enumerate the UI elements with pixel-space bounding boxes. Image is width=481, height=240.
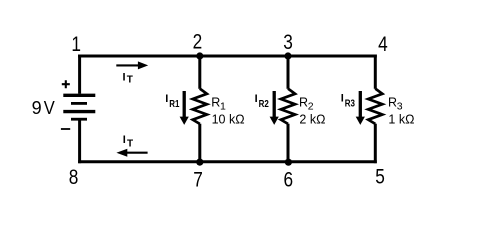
svg-text:8: 8 bbox=[69, 165, 79, 189]
svg-text:V: V bbox=[44, 98, 55, 118]
label R1 bbox=[211, 96, 226, 113]
svg-text:R: R bbox=[211, 96, 220, 110]
svg-text:T: T bbox=[127, 138, 133, 149]
svg-text:9: 9 bbox=[32, 98, 42, 118]
svg-text:6: 6 bbox=[284, 168, 294, 192]
battery plate long bbox=[63, 110, 95, 113]
svg-text:1: 1 bbox=[71, 32, 81, 56]
junction dot node 2 bbox=[196, 52, 203, 59]
svg-text:R2: R2 bbox=[259, 99, 270, 110]
svg-text:3: 3 bbox=[283, 30, 293, 54]
svg-text:3: 3 bbox=[397, 100, 403, 112]
svg-text:I: I bbox=[123, 134, 126, 146]
wire branch R1 lower (R1 down to node 7) bbox=[198, 124, 201, 162]
battery plate long (top, +) bbox=[63, 94, 95, 97]
svg-text:2: 2 bbox=[193, 30, 203, 54]
svg-text:R: R bbox=[388, 96, 397, 110]
svg-text:T: T bbox=[127, 75, 133, 86]
wire branch R2 lower (R2 down to node 6) bbox=[287, 124, 290, 162]
battery plate short bbox=[71, 102, 87, 105]
resistor R3 zigzag bbox=[368, 89, 382, 124]
wire bottom (node 8 to node 5) bbox=[78, 160, 377, 163]
wire left upper (node 1 down to battery + plate) bbox=[78, 55, 81, 94]
label R2 bbox=[299, 96, 314, 113]
wire right lower (R3 down to node 5) bbox=[374, 124, 377, 164]
wire right upper (node 4 down to R3) bbox=[374, 55, 377, 89]
battery negative sign - bbox=[61, 128, 70, 130]
svg-text:I: I bbox=[123, 71, 126, 83]
label I_R2 bbox=[255, 93, 270, 110]
svg-text:7: 7 bbox=[193, 168, 203, 192]
label I_T top bbox=[123, 71, 133, 85]
label I_R3 bbox=[341, 92, 356, 109]
wire top (node 1 to node 4) bbox=[78, 55, 377, 58]
junction dot node 7 bbox=[196, 159, 203, 166]
battery B1 bbox=[63, 95, 95, 119]
svg-text:R3: R3 bbox=[345, 98, 356, 109]
label I_R1 bbox=[165, 93, 180, 110]
svg-text:I: I bbox=[341, 92, 344, 104]
junction dot node 3 bbox=[284, 52, 291, 59]
svg-text:2 kΩ: 2 kΩ bbox=[299, 113, 325, 127]
svg-text:1 kΩ: 1 kΩ bbox=[388, 113, 414, 127]
junction dot node 6 bbox=[285, 159, 292, 166]
svg-text:R1: R1 bbox=[169, 99, 180, 110]
current arrow I_R1 (down) bbox=[180, 91, 189, 125]
svg-text:R: R bbox=[299, 96, 308, 110]
wire branch R1 upper (node 2 down to R1) bbox=[198, 56, 201, 89]
resistor R2 zigzag bbox=[281, 89, 295, 124]
resistor R1 zigzag bbox=[193, 89, 207, 124]
svg-text:2: 2 bbox=[308, 100, 314, 112]
svg-text:1: 1 bbox=[220, 100, 226, 112]
svg-text:I: I bbox=[255, 93, 258, 105]
current arrow I_R3 (down) bbox=[356, 91, 365, 125]
label I_T bottom bbox=[123, 134, 133, 149]
svg-text:5: 5 bbox=[375, 165, 385, 189]
battery plate short (bottom, -) bbox=[71, 118, 87, 121]
wire branch R2 upper (node 3 down to R2) bbox=[287, 56, 290, 89]
wire left lower (battery - plate down to node 8) bbox=[78, 121, 81, 164]
label R3 bbox=[388, 96, 403, 113]
current arrow I_T bottom (left) bbox=[116, 149, 147, 157]
current arrow I_T top (right) bbox=[116, 61, 148, 69]
svg-text:I: I bbox=[165, 93, 168, 105]
battery positive sign + bbox=[62, 80, 70, 88]
svg-text:4: 4 bbox=[378, 32, 388, 56]
current arrow I_R2 (down) bbox=[270, 91, 279, 125]
svg-text:10 kΩ: 10 kΩ bbox=[212, 113, 245, 127]
